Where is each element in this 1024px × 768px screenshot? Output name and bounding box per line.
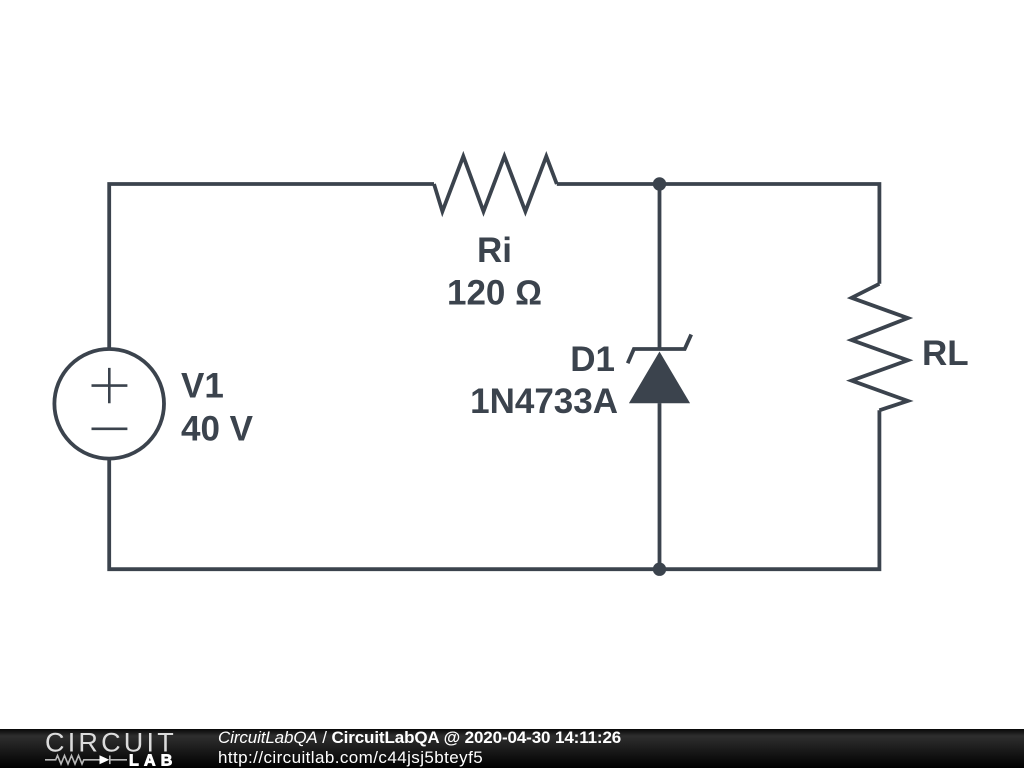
zener D1 triangle — [629, 352, 690, 404]
wire top rail right segment — [557, 184, 880, 284]
svg-text:1N4733A: 1N4733A — [470, 382, 618, 421]
wire zener bottom — [658, 403, 662, 569]
junction node bottom — [653, 563, 666, 576]
wire zener top — [658, 184, 662, 349]
svg-text:Ri: Ri — [477, 231, 512, 270]
V1 plus sign — [92, 368, 128, 403]
footer attribution bar — [0, 729, 1024, 768]
V1 minus sign — [92, 427, 128, 430]
junction node top — [653, 177, 666, 190]
svg-text:V1: V1 — [181, 366, 224, 405]
zener D1 cathode bar — [628, 335, 692, 364]
logo resistor-diode wire — [45, 756, 127, 765]
svg-text:RL: RL — [922, 334, 969, 373]
svg-text:D1: D1 — [570, 340, 615, 379]
svg-text:120 Ω: 120 Ω — [447, 273, 542, 312]
voltage source V1 circle — [54, 349, 164, 459]
CircuitLab logo wordmark — [0, 729, 200, 768]
resistor Ri zigzag — [434, 156, 557, 211]
resistor RL zigzag — [852, 284, 908, 411]
logo diode triangle — [100, 755, 110, 764]
wire right rail lower — [109, 410, 879, 569]
wire top rail left segment — [109, 184, 434, 349]
attribution line 1 — [218, 728, 621, 747]
attribution line 2 — [218, 748, 483, 767]
svg-text:40 V: 40 V — [181, 410, 254, 449]
svg-text:LAB: LAB — [129, 753, 177, 768]
